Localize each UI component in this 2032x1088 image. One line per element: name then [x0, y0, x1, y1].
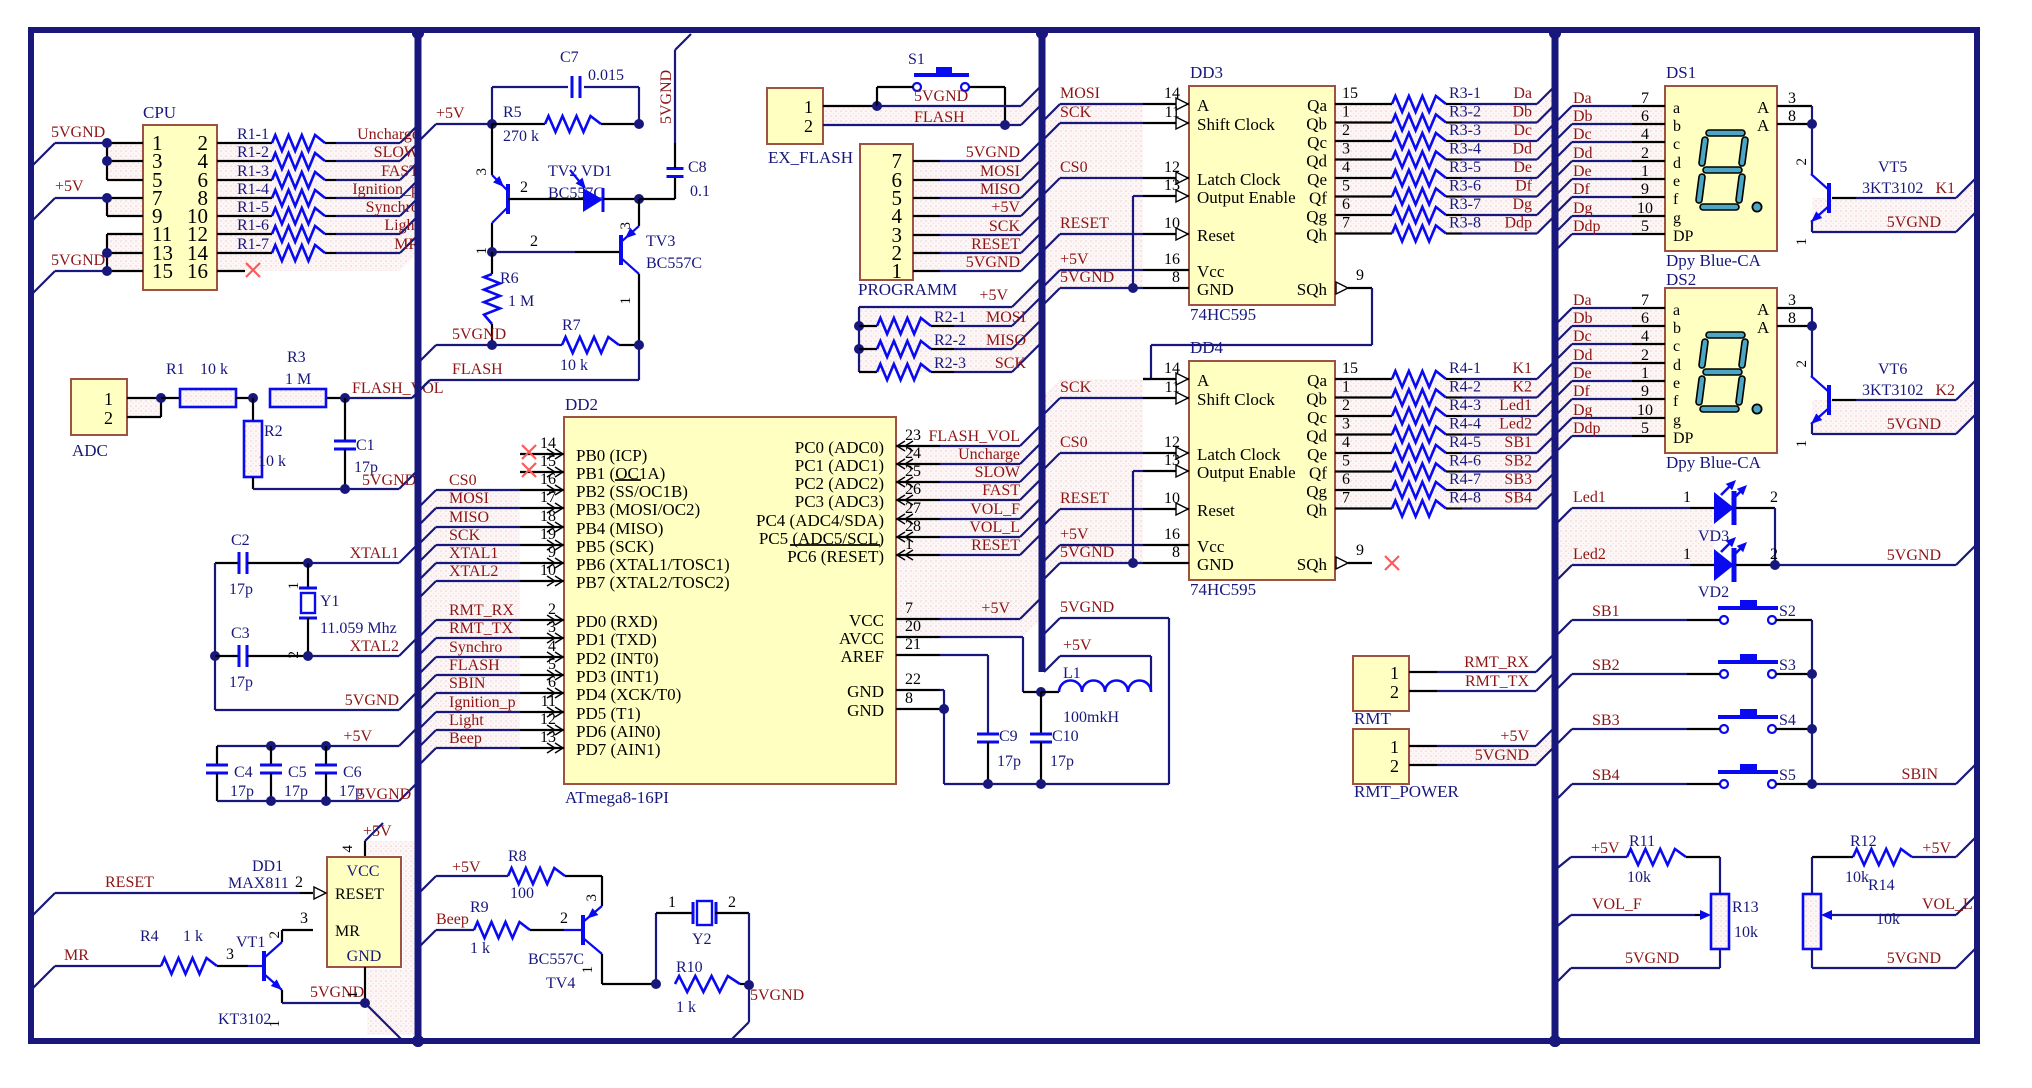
hatch band DS2 transistor emitter	[1812, 379, 1977, 434]
net label MISO dd2	[449, 509, 489, 526]
svg-text:R1-1: R1-1	[237, 126, 269, 143]
resistor R1-3	[217, 163, 336, 188]
svg-text:GND: GND	[1197, 555, 1234, 574]
net label Dc DS1	[1573, 126, 1592, 143]
wire De DS1	[1558, 179, 1665, 193]
pin 6 DS1	[1641, 108, 1649, 125]
svg-text:SCK: SCK	[1060, 104, 1092, 121]
pin 3 DD4 Qd	[1335, 416, 1392, 435]
svg-text:ADC: ADC	[72, 441, 108, 460]
pin 27 DD2 PC4	[896, 500, 940, 524]
wire ADC pin1	[127, 397, 161, 399]
net label Synchro	[366, 199, 419, 216]
net label FAST dd2r	[982, 482, 1020, 499]
svg-text:0.015: 0.015	[588, 67, 624, 84]
resistor R2-3	[859, 355, 966, 380]
svg-text:AVCC: AVCC	[839, 629, 884, 648]
svg-text:1: 1	[104, 389, 113, 409]
wire RMT_RX	[1409, 653, 1555, 672]
junction dot CPU pin15	[102, 266, 112, 276]
svg-text:6: 6	[1342, 471, 1350, 488]
svg-text:R3-8: R3-8	[1449, 215, 1481, 232]
net label +5V programm	[991, 199, 1020, 216]
hatch band EX_FLASH rows	[823, 85, 1042, 125]
resistor R10	[675, 959, 749, 1016]
net label Dg DS2	[1573, 402, 1593, 419]
junction dot divider1 top overlay	[412, 27, 424, 39]
transistor TV3 BC557C	[618, 222, 702, 305]
wire net Light	[336, 216, 418, 234]
svg-text:Uncharge: Uncharge	[958, 446, 1020, 463]
svg-text:MR: MR	[64, 947, 89, 964]
svg-text:R4-1: R4-1	[1449, 360, 1481, 377]
svg-text:C2: C2	[231, 532, 250, 549]
hatch bands CPU right resistor rows	[217, 125, 418, 271]
svg-text:A: A	[1197, 96, 1210, 115]
svg-text:BC557C: BC557C	[646, 255, 702, 272]
pin 14 DD2 PB0	[520, 435, 564, 459]
svg-text:f: f	[1673, 191, 1679, 208]
power port +5V DD1	[340, 823, 392, 857]
net label SB3 dd4	[1504, 471, 1532, 488]
net label Uncharge	[357, 126, 419, 143]
junction dot ADC node	[156, 393, 166, 403]
svg-text:R3-6: R3-6	[1449, 178, 1481, 195]
decimal point DS1	[1752, 202, 1761, 211]
svg-text:SB1: SB1	[1504, 434, 1532, 451]
resistor R3-6	[1392, 178, 1481, 205]
wire MOSI pullup	[954, 298, 1040, 326]
svg-text:K2: K2	[1935, 382, 1955, 399]
wire Dc DS1	[1558, 142, 1665, 156]
wire 5VGND programm	[940, 250, 1042, 271]
svg-text:A: A	[1757, 98, 1770, 117]
junction dot R6 bottom	[487, 340, 497, 350]
pin 13 DD2 PD7	[520, 729, 564, 753]
wire RESET net	[33, 874, 313, 915]
svg-text:2: 2	[1770, 489, 1778, 506]
pin 13 DD3 OE	[1143, 177, 1189, 202]
svg-text:PC1 (ADC1): PC1 (ADC1)	[795, 456, 884, 475]
hatch bands DD2 left PB rows	[418, 490, 520, 766]
connector PROGRAMM	[858, 144, 957, 299]
pin 1 DD4 Qb	[1335, 379, 1392, 398]
svg-text:R1-7: R1-7	[237, 236, 269, 253]
wire SB1 dd4	[1462, 435, 1555, 453]
wire MOSI to DD2	[418, 508, 520, 526]
wire +5V vcc	[940, 597, 1042, 619]
capacitor C3	[215, 625, 308, 691]
resistor R1-2	[217, 144, 336, 169]
wire SB4 dd4	[1462, 491, 1555, 509]
pin 15 DD2 PB1	[520, 453, 564, 477]
net label VOL_L dd2r	[969, 519, 1020, 536]
svg-text:Ddp: Ddp	[1573, 218, 1601, 235]
hatch band DS1 transistor emitter	[1812, 177, 1977, 232]
net label SBIN dd2	[449, 675, 486, 692]
svg-text:PC4 (ADC4/SDA): PC4 (ADC4/SDA)	[756, 511, 884, 530]
net label SCK programm	[989, 218, 1021, 235]
wire DD3 OE to gnd	[1133, 196, 1143, 288]
svg-text:VT1: VT1	[236, 934, 265, 951]
net label 5VGND vt1	[310, 984, 364, 1001]
svg-text:8: 8	[1172, 269, 1180, 286]
svg-text:R4-6: R4-6	[1449, 453, 1481, 470]
svg-text:FLASH: FLASH	[449, 657, 500, 674]
pin 8 DS2 anode	[1777, 310, 1812, 327]
net label Ignition_p dd2	[449, 694, 516, 711]
wire TV4 emitter to gnd node	[602, 954, 656, 984]
resistor R4-5	[1392, 434, 1481, 461]
svg-text:13: 13	[1164, 452, 1180, 469]
wire VT1 emitter to 5VGND	[282, 990, 365, 1003]
svg-text:RESET: RESET	[971, 236, 1020, 253]
pin 10 DD3 RS	[1143, 215, 1189, 240]
pin 5 PROGRAMM	[913, 197, 940, 199]
svg-text:C1: C1	[356, 437, 375, 454]
svg-text:+5V: +5V	[991, 199, 1020, 216]
svg-text:Reset: Reset	[1197, 226, 1235, 245]
svg-text:PD5 (T1): PD5 (T1)	[576, 704, 641, 723]
wire net FAST	[336, 162, 418, 180]
svg-text:11: 11	[1165, 104, 1180, 121]
svg-text:1 k: 1 k	[676, 999, 696, 1016]
pin 15 DD3 Qa	[1335, 85, 1392, 104]
svg-text:2: 2	[295, 874, 303, 891]
svg-text:S4: S4	[1779, 712, 1796, 729]
junction dot CPU pin7	[102, 193, 112, 203]
pin 22 DD2 GND	[896, 671, 940, 690]
wire FLASH to DD2	[418, 675, 520, 693]
svg-text:MAX811: MAX811	[228, 875, 289, 892]
wire Synchro to DD2	[418, 657, 520, 675]
hatch bands DS1 left rows	[1558, 106, 1665, 248]
resistor R4-7	[1392, 471, 1481, 498]
svg-text:Db: Db	[1512, 104, 1532, 121]
junction dot C10 gnd	[1036, 779, 1046, 789]
svg-text:MOSI: MOSI	[1060, 85, 1100, 102]
net label +5V r11	[1591, 840, 1620, 857]
svg-text:5VGND: 5VGND	[1887, 950, 1941, 967]
junction dot GND pins	[939, 704, 949, 714]
wire CPU pin13 stub	[107, 252, 143, 254]
svg-text:GND: GND	[1197, 280, 1234, 299]
wire 5VGND dd4	[1042, 563, 1143, 581]
net label SCK dd2	[449, 527, 481, 544]
pin 16 DD2 PB2	[520, 471, 564, 495]
switch S4	[1558, 709, 1812, 743]
svg-text:R3-3: R3-3	[1449, 122, 1481, 139]
capacitor C2	[215, 532, 308, 598]
wire base K2	[1832, 379, 1977, 400]
net label +5V vcc	[981, 600, 1010, 617]
svg-text:5: 5	[1342, 453, 1350, 470]
svg-text:K2: K2	[1512, 379, 1532, 396]
junction dot r2-1	[854, 321, 864, 331]
net label +5V caps	[343, 728, 372, 745]
svg-text:Da: Da	[1573, 90, 1592, 107]
net label MOSI dd3	[1060, 85, 1100, 102]
svg-text:MISO: MISO	[980, 181, 1020, 198]
power port +5V left	[33, 178, 107, 220]
wire DD4 OE to gnd	[1133, 471, 1143, 563]
wire +5V dd3	[1042, 270, 1143, 288]
svg-text:7: 7	[1342, 215, 1350, 232]
svg-text:Light: Light	[384, 217, 419, 234]
net label +5V dd4	[1060, 526, 1089, 543]
svg-text:21: 21	[905, 636, 921, 653]
svg-text:Synchro: Synchro	[366, 199, 419, 216]
net label De DS2	[1573, 365, 1592, 382]
net label SB1	[1592, 603, 1620, 620]
potentiometer R13 10k	[1555, 894, 1759, 949]
svg-text:c: c	[1673, 338, 1680, 355]
wire Dc DS2	[1558, 344, 1665, 358]
net label 5VGND VT6	[1887, 416, 1941, 433]
net label Uncharge dd2r	[958, 446, 1020, 463]
wire SCK dd3	[1042, 123, 1143, 141]
net label SCK pullup	[995, 355, 1027, 372]
wire +5V r11	[1555, 857, 1627, 870]
wire 5VGND dd3	[1042, 288, 1143, 306]
net label RESET dd1	[105, 874, 154, 891]
display DS2 Dpy Blue-CA	[1665, 270, 1777, 472]
hatch bands PROGRAMM rows	[913, 140, 1042, 271]
wire TV3 collector to node	[638, 199, 640, 226]
svg-text:Qc: Qc	[1307, 133, 1327, 152]
junction dot divider3 bottom overlay	[1549, 1035, 1561, 1047]
wire DD1 GND pin	[345, 967, 365, 1003]
svg-text:10: 10	[1164, 215, 1180, 232]
svg-text:RESET: RESET	[1060, 490, 1109, 507]
svg-text:1 k: 1 k	[470, 940, 490, 957]
potentiometer R14 10k	[1803, 877, 1977, 949]
svg-text:3KT3102: 3KT3102	[1862, 180, 1923, 197]
svg-text:13: 13	[1164, 177, 1180, 194]
svg-text:R7: R7	[562, 317, 581, 334]
wire MR net	[33, 966, 161, 988]
power port 5VGND tv3	[418, 326, 562, 363]
svg-text:2: 2	[560, 910, 568, 927]
pin 6 PROGRAMM	[913, 179, 940, 181]
net label 5VGND rmt	[1475, 747, 1529, 764]
pin 8 DS1 anode	[1777, 108, 1812, 125]
wire FLASH s1 row	[823, 104, 1042, 125]
svg-text:R1-6: R1-6	[237, 217, 269, 234]
hatch bands DD4 right rows	[1335, 361, 1555, 509]
wire Ddp DS1	[1558, 234, 1665, 248]
wire Light to DD2	[418, 730, 520, 748]
net label 5VGND vertical	[658, 70, 675, 124]
svg-text:FLASH_VOL: FLASH_VOL	[928, 428, 1020, 445]
net label Led1	[1573, 489, 1606, 506]
svg-text:R1: R1	[166, 361, 185, 378]
svg-text:1: 1	[1390, 663, 1399, 683]
svg-text:8: 8	[1788, 310, 1796, 327]
svg-text:3: 3	[1342, 141, 1350, 158]
pin 18 DD2 PB4	[520, 508, 564, 532]
svg-text:1: 1	[1641, 365, 1649, 382]
net label FLASH dd2	[449, 657, 500, 674]
wire net Ignition_p	[336, 180, 418, 198]
net label MOSI programm	[980, 163, 1020, 180]
resistor R3-7	[1392, 196, 1481, 223]
svg-text:R1-4: R1-4	[237, 181, 269, 198]
pin 17 DD2 PB3	[520, 489, 564, 513]
resistor R3	[270, 349, 345, 407]
net label SB2	[1592, 657, 1620, 674]
wire FAST from DD2	[940, 478, 1042, 500]
svg-text:2: 2	[1342, 122, 1350, 139]
junction dot anode DS1	[1807, 119, 1817, 129]
svg-text:9: 9	[1641, 181, 1649, 198]
pin 9 DS1	[1641, 181, 1649, 198]
svg-text:16: 16	[540, 471, 556, 488]
transistor VT1 KT3102	[218, 931, 283, 1028]
pin 11 DD4 SC	[1143, 379, 1189, 404]
svg-text:15: 15	[1342, 85, 1358, 102]
pin 26 DD2 PC3	[896, 481, 940, 505]
svg-text:100: 100	[510, 885, 534, 902]
svg-text:15: 15	[540, 453, 556, 470]
svg-text:+5V: +5V	[436, 105, 465, 122]
pin arrow DD1 RESET	[314, 887, 326, 899]
pin 20 DD2 AVCC	[896, 618, 940, 637]
wire net Synchro	[336, 198, 418, 216]
net label 5VGND VT5	[1887, 214, 1941, 231]
wire Ddp dd3	[1462, 216, 1555, 234]
wire TV2 base to VD1	[508, 198, 583, 200]
junction dot S3	[1807, 669, 1817, 679]
pin 28 DD2 PC5	[896, 518, 940, 542]
svg-text:22: 22	[905, 671, 921, 688]
LED VD2 Led2	[1558, 537, 1778, 601]
svg-text:17p: 17p	[1050, 753, 1074, 770]
transistor VT6 3KT3102	[1794, 361, 1923, 448]
svg-text:1: 1	[345, 991, 361, 999]
svg-text:5: 5	[1641, 420, 1649, 437]
wire Da DS2	[1558, 308, 1665, 322]
resistor R6	[484, 252, 534, 345]
power port +5V r8	[418, 859, 508, 894]
resistor R4-1	[1392, 360, 1481, 387]
svg-text:+5V: +5V	[1591, 840, 1620, 857]
svg-text:e: e	[1673, 173, 1680, 190]
net label SB3	[1592, 712, 1620, 729]
svg-text:10: 10	[1637, 200, 1653, 217]
net label 5VGND programm	[966, 254, 1020, 271]
svg-text:3: 3	[548, 619, 556, 636]
junction dot DD3 OE gnd	[1128, 283, 1138, 293]
pin 8 DD3 GND	[1143, 269, 1189, 288]
svg-text:1 M: 1 M	[508, 293, 534, 310]
pin 7 DD3 Qh	[1335, 215, 1392, 234]
wire CPU pin3 stub	[107, 160, 143, 162]
svg-text:RMT_RX: RMT_RX	[449, 602, 514, 619]
svg-text:1: 1	[580, 966, 596, 974]
pin 9 DD2 PB6	[520, 544, 564, 568]
svg-text:AREF: AREF	[841, 647, 884, 666]
net label SCK dd4	[1060, 379, 1092, 396]
pin 23 DD2 PC0	[896, 427, 940, 451]
svg-text:Dpy Blue-CA: Dpy Blue-CA	[1666, 453, 1762, 472]
svg-text:Led2: Led2	[1573, 546, 1606, 563]
junction dot divider3-bottom	[1549, 1035, 1561, 1047]
pin 3 DS1 anode	[1777, 90, 1812, 107]
svg-text:PB4 (MISO): PB4 (MISO)	[576, 519, 663, 538]
svg-text:1: 1	[1683, 489, 1691, 506]
svg-text:S3: S3	[1779, 657, 1796, 674]
transistor TV4 BC557C	[528, 906, 602, 992]
svg-text:+5V: +5V	[1063, 637, 1092, 654]
net label K2 dd4	[1512, 379, 1532, 396]
net label SLOW	[374, 144, 420, 161]
net label Da DS2	[1573, 292, 1592, 309]
hatch band RMT_POWER rows	[1409, 727, 1555, 765]
svg-text:6: 6	[548, 674, 556, 691]
pin 4 DD3 Qe	[1335, 159, 1392, 178]
resistor R3-1	[1392, 85, 1481, 112]
svg-text:CS0: CS0	[1060, 434, 1088, 451]
junction dot VD1 out	[634, 194, 644, 204]
svg-text:1: 1	[286, 582, 302, 590]
svg-text:8: 8	[905, 690, 913, 707]
net label XTAL1	[350, 545, 399, 562]
svg-text:TV3: TV3	[646, 233, 675, 250]
wire Dg DS1	[1558, 216, 1665, 230]
svg-text:4: 4	[1342, 159, 1350, 176]
svg-text:Dc: Dc	[1573, 126, 1592, 143]
svg-text:74HC595: 74HC595	[1190, 580, 1256, 599]
svg-text:FLASH: FLASH	[452, 361, 503, 378]
svg-text:2: 2	[530, 233, 538, 250]
net label SB2 dd4	[1504, 453, 1532, 470]
svg-text:Led1: Led1	[1499, 397, 1532, 414]
wire Led2 dd4	[1462, 417, 1555, 435]
svg-text:RMT_TX: RMT_TX	[449, 620, 513, 637]
svg-text:5: 5	[548, 656, 556, 673]
net label MISO programm	[980, 181, 1020, 198]
svg-text:Output Enable: Output Enable	[1197, 463, 1296, 482]
pin 10 DD4 RS	[1143, 490, 1189, 515]
capacitor C1	[334, 398, 378, 489]
pin 6 DD3 Qg	[1335, 196, 1392, 215]
resistor R5	[492, 104, 639, 145]
pin 7 DD4 Qh	[1335, 490, 1392, 509]
svg-text:R6: R6	[500, 270, 519, 287]
wire Beep net	[418, 930, 474, 948]
svg-text:17p: 17p	[230, 783, 254, 800]
svg-text:BC557C: BC557C	[528, 951, 584, 968]
connector CPU	[143, 103, 217, 290]
net label MOSI dd2	[449, 490, 489, 507]
svg-text:10 k: 10 k	[200, 361, 228, 378]
svg-text:R2-3: R2-3	[934, 355, 966, 372]
svg-text:R3-2: R3-2	[1449, 104, 1481, 121]
svg-text:SQh: SQh	[1297, 555, 1328, 574]
svg-text:11: 11	[541, 693, 556, 710]
svg-text:R2-2: R2-2	[934, 332, 966, 349]
pin 2 DS2	[1641, 347, 1649, 364]
wire RESET programm	[940, 232, 1042, 253]
svg-text:SCK: SCK	[989, 218, 1021, 235]
svg-text:10 k: 10 k	[258, 453, 286, 470]
svg-text:Df: Df	[1515, 178, 1533, 195]
svg-text:1: 1	[1683, 546, 1691, 563]
net label 5VGND s1	[914, 88, 968, 105]
pin 9 DD3 SQh	[1336, 267, 1372, 294]
wire Ignition_p to DD2	[418, 712, 520, 730]
